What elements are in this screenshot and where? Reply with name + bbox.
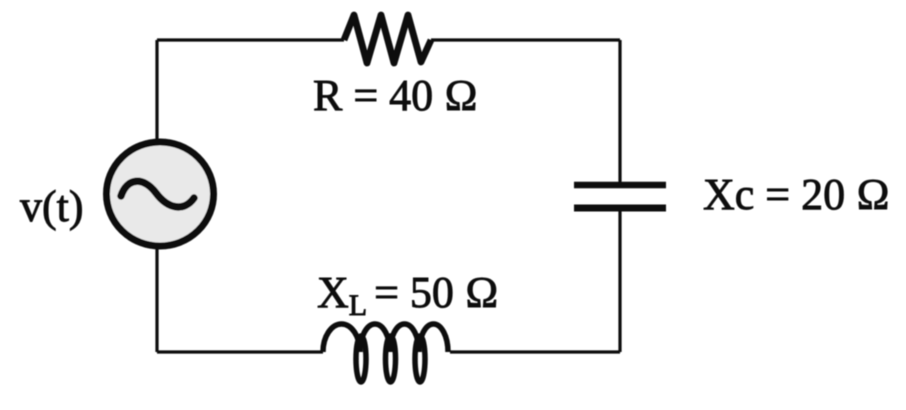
svg-text:R = 40 Ω: R = 40 Ω — [313, 71, 478, 120]
svg-text:XL = 50 Ω: XL = 50 Ω — [317, 268, 499, 322]
svg-text:v(t): v(t) — [20, 182, 84, 231]
svg-text:Xc = 20 Ω: Xc = 20 Ω — [703, 170, 890, 219]
